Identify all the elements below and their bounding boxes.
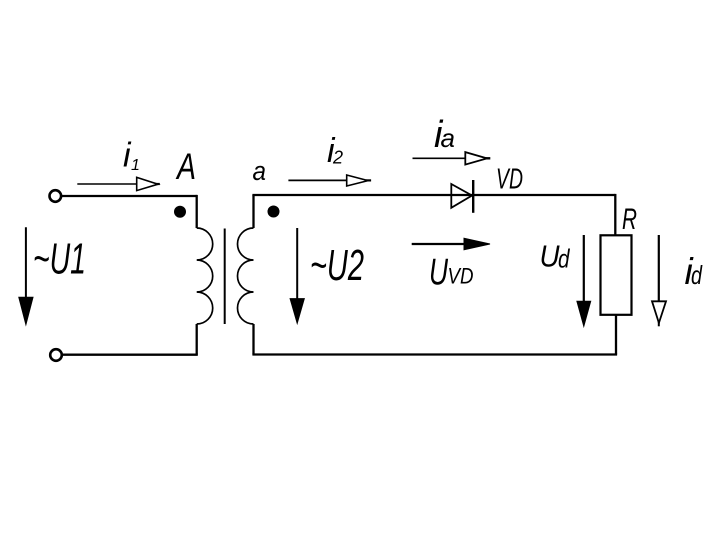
transformer T primary winding — [197, 228, 213, 324]
label Ud — [540, 239, 571, 274]
svg-text:VD: VD — [448, 264, 474, 289]
wire right rail down to resistor — [614, 194, 616, 235]
label i2 — [327, 132, 343, 170]
label id — [685, 251, 704, 292]
label i1 — [123, 137, 140, 175]
wire primary left vertical bottom — [196, 324, 198, 355]
svg-text:R: R — [622, 203, 637, 236]
resistor R body — [601, 235, 632, 314]
diode VD triangle — [451, 184, 472, 208]
arrow id (open) — [652, 235, 666, 326]
svg-text:VD: VD — [496, 164, 523, 196]
svg-text:a: a — [253, 156, 267, 186]
arrow ia — [413, 152, 491, 165]
phase dot secondary — [268, 206, 280, 218]
svg-text:~U2: ~U2 — [310, 241, 364, 290]
label ia — [434, 114, 455, 156]
terminal circle bottom-left — [50, 349, 62, 361]
wire below resistor — [615, 315, 617, 355]
svg-text:a: a — [441, 123, 455, 153]
wire primary left vertical top — [196, 195, 198, 228]
svg-text:~U1: ~U1 — [33, 235, 86, 284]
arrow ~U1 (filled) — [19, 227, 33, 324]
svg-text:A: A — [175, 146, 196, 187]
wire secondary right vertical top — [252, 195, 254, 228]
wire bottom rail — [252, 353, 617, 355]
svg-text:U: U — [540, 239, 561, 274]
transformer core — [224, 229, 226, 325]
svg-text:d: d — [691, 260, 703, 290]
svg-text:1: 1 — [131, 157, 140, 174]
svg-text:2: 2 — [332, 148, 343, 168]
arrow UVD (filled) — [412, 238, 490, 250]
arrow i1 — [77, 177, 160, 190]
label UVD — [429, 252, 474, 293]
svg-text:U: U — [429, 252, 448, 293]
terminal circle top-left — [50, 190, 62, 202]
wire secondary left vertical bottom — [252, 324, 254, 355]
svg-text:d: d — [558, 244, 571, 274]
arrow Ud (filled) — [577, 235, 591, 326]
wire secondary top to right rail — [252, 194, 615, 196]
diode VD cathode bar — [472, 180, 474, 213]
arrow ~U2 (filled) — [290, 228, 304, 323]
transformer T secondary winding — [238, 228, 254, 324]
wire primary bottom — [62, 354, 198, 356]
arrow i2 — [288, 175, 371, 186]
wire primary top — [62, 195, 198, 197]
phase dot primary — [174, 206, 186, 218]
